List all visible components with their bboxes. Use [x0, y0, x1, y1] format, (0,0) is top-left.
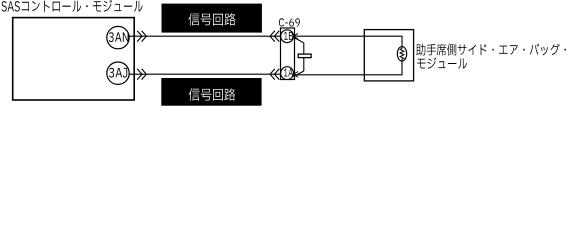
pin 1A — [281, 67, 294, 80]
barb arrow at 1B — [293, 33, 298, 39]
wire 1A to squib bottom — [293, 61, 402, 75]
SAS control module box — [13, 18, 135, 100]
shorting bar clip — [298, 54, 311, 58]
signal circuit label (top) — [162, 4, 262, 33]
shorting bar diagonal to 1A — [294, 71, 304, 77]
squib (igniter) — [397, 47, 406, 61]
wire from 3AJ to C-69 pin 1A — [129, 73, 281, 75]
wire from 3AN to C-69 pin 1B — [129, 35, 281, 37]
wire 1B to squib top — [293, 36, 402, 47]
barb arrow at 1A — [294, 72, 299, 78]
terminal 3AJ — [107, 62, 129, 84]
label: SAS control module title — [2, 0, 143, 12]
terminal 3AN — [107, 26, 129, 48]
pin 1B — [281, 30, 294, 43]
connector C-69 label — [279, 18, 300, 26]
in-connector chevrons on 1B wire — [270, 31, 275, 42]
label: passenger side air bag module — [416, 44, 566, 56]
shorting bar stem — [303, 43, 305, 71]
signal circuit label (bottom) — [161, 78, 261, 106]
connector C-69 body — [281, 28, 295, 80]
shorting bar diagonal from 1B — [294, 38, 304, 43]
out-connector chevrons on 3AJ wire — [137, 69, 142, 80]
air bag module box — [364, 30, 413, 81]
out-connector chevrons on 3AN wire — [137, 31, 142, 42]
in-connector chevrons on 1A wire — [270, 69, 275, 80]
